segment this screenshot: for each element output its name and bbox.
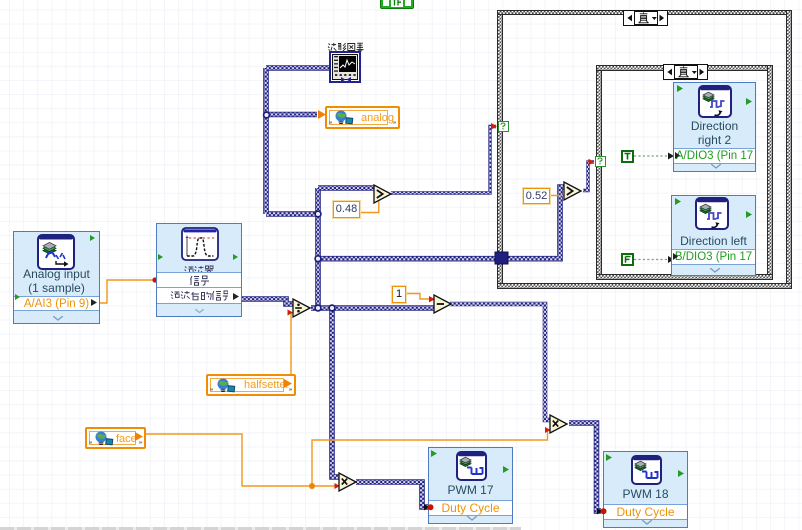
bottom window edge bar bbox=[0, 527, 521, 530]
wire: boolean from inner greater-than to inner case selector bbox=[583, 162, 594, 191]
wire: multiply2 output to PWM 18 duty cycle bbox=[569, 423, 601, 511]
terminal: waveform chart (label) bbox=[327, 39, 364, 57]
express VI: PWM 17 bbox=[428, 447, 513, 524]
node: greater-than (outer) bbox=[373, 184, 392, 204]
wire: orange from constant 1 to subtract x input bbox=[406, 294, 433, 300]
wire: green dotted FALSE constant to Direction left bbox=[634, 259, 669, 261]
input dots: PWM duty cycle inputs (red) bbox=[420, 500, 440, 516]
case selector label: inner (true) bbox=[663, 64, 708, 80]
shared variable: halfsetter bbox=[206, 374, 296, 396]
constant: 1 bbox=[392, 286, 406, 303]
boolean constant: FALSE bbox=[621, 253, 634, 266]
junction: orange dot on face wire bbox=[309, 483, 315, 489]
case structure: inner TRUE frame, left border bbox=[596, 65, 602, 280]
wire: green dotted TRUE constant to Direction right 2 bbox=[634, 155, 669, 157]
express VI: Direction left bbox=[671, 195, 756, 276]
wire: subtract output to multiply 2 bbox=[450, 304, 550, 420]
constant: 0.52 bbox=[523, 188, 550, 204]
express VI: Analog input (1 sample) bbox=[13, 231, 100, 324]
wire: divide output to subtract node (y=308) bbox=[311, 305, 434, 311]
wire: orange from face variable, branch to multiply1 and multiply2 bbox=[146, 434, 338, 486]
wire: filtered signal from filter output to divide input bbox=[236, 299, 293, 304]
constant: 0.48 bbox=[333, 201, 360, 218]
wire: branch down x=332 to multiply 1 bbox=[332, 308, 339, 477]
case selector terminal: inner [?] bbox=[595, 156, 606, 167]
node: multiply 1 bbox=[338, 472, 357, 492]
wire: divide output trunk vertical (x=318, y=188..308) bbox=[315, 188, 321, 308]
node: greater-than (inner) bbox=[563, 181, 582, 201]
terminal: waveform chart icon bbox=[329, 51, 361, 83]
express VI: filter (Chinese label) bbox=[156, 223, 242, 317]
case selector label: outer (true) bbox=[623, 10, 668, 26]
wire: branch left at y=214 toward chart/analog riser bbox=[266, 211, 318, 217]
input arrow into analog variable bbox=[318, 110, 327, 120]
wire: orange from halfsetter up to divide y input bbox=[291, 313, 292, 377]
node: divide bbox=[292, 298, 311, 318]
node: multiply 2 bbox=[549, 414, 568, 434]
case structure: inner TRUE frame, bottom border bbox=[596, 274, 773, 280]
red input dots: filter signal input, PWM duty inputs bbox=[152, 277, 157, 282]
wire: branch through case tunnel to inner comparison (y=258.7) bbox=[318, 187, 564, 259]
express VI: PWM 18 bbox=[603, 451, 688, 528]
boolean constant: TRUE bbox=[621, 150, 634, 163]
wire: riser x=266 from y=68 to y=214 bbox=[263, 68, 269, 214]
wire: orange from Analog input A/AI3 to filter signal input bbox=[100, 280, 153, 303]
tunnel: dynamic wire tunnel on outer case left border bbox=[495, 252, 508, 264]
wire: orange from constant 0.48 to greater-than y input bbox=[360, 201, 379, 213]
case selector terminal: outer [?] bbox=[498, 121, 509, 132]
junction: dynamic wire junction dots bbox=[264, 112, 270, 118]
shared variable: face bbox=[85, 427, 146, 449]
boolean control terminal TF (clipped at top edge) bbox=[380, 0, 414, 9]
case structure: outer TRUE frame, bottom border bbox=[497, 283, 792, 289]
case structure: outer TRUE frame, left border bbox=[497, 10, 503, 289]
shared variable: analog bbox=[325, 106, 400, 129]
wire: branch to analog shared variable (y=114.5) bbox=[266, 112, 317, 118]
wire: branch to waveform chart terminal (y=68) bbox=[266, 65, 329, 71]
wire: multiply1 output to PWM 17 duty cycle bbox=[356, 482, 428, 507]
case structure: inner TRUE frame, right border bbox=[767, 65, 773, 280]
case structure: outer TRUE frame, top border bbox=[497, 10, 792, 15]
wire: boolean from greater-than to outer case selector bbox=[391, 127, 496, 194]
case structure: outer TRUE frame, right border bbox=[786, 10, 792, 289]
coercion/input arrows: red bbox=[288, 310, 294, 316]
case structure: inner TRUE frame, top border bbox=[596, 65, 773, 71]
express VI: Direction right 2 bbox=[673, 82, 756, 172]
wire: orange from constant 0.52 to inner greater-than y input bbox=[550, 195, 564, 197]
wire: branch to greater-than node (y=188) bbox=[318, 185, 375, 191]
node: subtract bbox=[433, 294, 452, 314]
